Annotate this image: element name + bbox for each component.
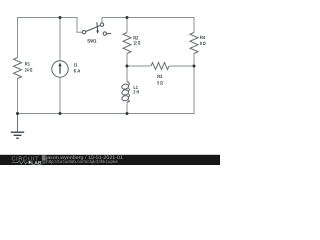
wire: left rail top (R1 top lead): [17, 18, 19, 58]
label L1 / 2 H: [133, 85, 139, 96]
wire: I1 bottom lead: [59, 77, 61, 113]
wire: I1 top lead: [59, 18, 61, 62]
switch blade: [86, 25, 101, 31]
ground: [11, 114, 24, 139]
svg-text:5 Ω: 5 Ω: [157, 81, 163, 87]
current source I1: [52, 61, 68, 77]
node: mid rail / R2-L1 junction: [126, 65, 129, 68]
svg-text:R2: R2: [133, 35, 138, 41]
node: bottom rail / ground junction: [16, 112, 19, 115]
svg-text:http://circuitlab.com/c5jk43hk: http://circuitlab.com/c5jk43hkcupke: [46, 159, 118, 164]
node: mid rail / right column junction: [193, 65, 196, 68]
svg-text:8 Ω: 8 Ω: [200, 41, 206, 47]
wire: mid rail right (R3 to right column): [170, 65, 195, 67]
switch actuator arrow: [96, 22, 99, 34]
label R1 / 24 Ω: [25, 62, 33, 74]
svg-text:LAB: LAB: [31, 161, 42, 166]
watermark bar: [0, 155, 220, 165]
wire: L1 bottom lead: [126, 102, 128, 114]
switch open throw contact: [103, 32, 106, 35]
node: bottom rail / L1 junction: [126, 112, 129, 115]
wire: R4 top lead: [193, 17, 195, 33]
svg-text:12 Ω: 12 Ω: [133, 41, 140, 47]
svg-text:2 H: 2 H: [133, 90, 139, 96]
inductor L1 2H: [121, 82, 129, 102]
label R3 / 5 Ω: [157, 74, 163, 86]
svg-text:24 Ω: 24 Ω: [25, 67, 33, 73]
switch SW1: [82, 23, 111, 35]
svg-text:R4: R4: [200, 35, 205, 41]
wire: R2 top lead: [126, 18, 128, 33]
resistor R3 5Ω (horizontal): [151, 63, 169, 70]
wire: switch throw up to top rail: [101, 18, 103, 24]
wire: L1 top lead: [126, 66, 128, 82]
wire: mid rail left (node to R3): [127, 65, 151, 67]
resistor R2 12Ω: [123, 33, 131, 54]
label R2 / 12 Ω: [133, 35, 140, 46]
resistor R4 8Ω: [190, 33, 198, 54]
wire: R2 bottom lead to mid node: [126, 54, 128, 67]
wire: top rail right segment: [102, 17, 194, 19]
CircuitLab logo: [11, 155, 45, 166]
switch common contact: [82, 31, 85, 34]
node: top rail / R2 junction: [126, 16, 129, 19]
svg-text:R3: R3: [157, 74, 162, 80]
svg-text:I1: I1: [74, 63, 78, 69]
switch top throw contact: [100, 23, 103, 26]
wire: bottom rail: [18, 113, 195, 115]
label I1 / 6 A: [74, 63, 81, 75]
svg-text:6 A: 6 A: [74, 68, 81, 74]
wire: R4 bottom lead down right column: [193, 54, 195, 115]
node: bottom rail / I1 junction: [59, 112, 62, 115]
resistor R1 24Ω: [14, 58, 22, 79]
switch open throw stub: [107, 33, 112, 35]
svg-text:SW1: SW1: [87, 39, 97, 45]
node: top rail / I1 junction: [59, 16, 62, 19]
watermark text: [45, 155, 123, 164]
wire: drop from top rail to switch common: [77, 18, 82, 33]
svg-text:R1: R1: [25, 62, 30, 68]
label R4 / 8 Ω: [200, 35, 206, 47]
wire: top rail left segment: [17, 17, 78, 19]
wire: R1 bottom lead: [17, 79, 19, 114]
